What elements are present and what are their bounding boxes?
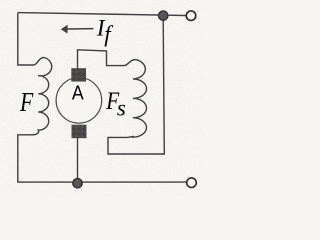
svg-text:s: s — [117, 96, 126, 121]
svg-text:F: F — [19, 88, 34, 118]
svg-text:A: A — [72, 83, 84, 105]
